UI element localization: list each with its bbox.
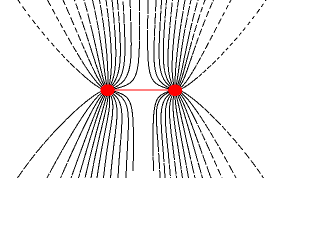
field line TL13 bbox=[18, 0, 104, 90]
field line BR12 bbox=[179, 92, 236, 179]
field line TL5 bbox=[110, 0, 116, 86]
field line BL4 bbox=[111, 93, 118, 178]
field line BR1 bbox=[153, 91, 171, 172]
field line TL11 bbox=[63, 0, 105, 88]
field line BR6 bbox=[173, 94, 183, 178]
field line BR9 bbox=[177, 94, 203, 179]
field line TL10 bbox=[75, 0, 106, 87]
field line BR11 bbox=[179, 93, 222, 179]
charge Q2 (right) bbox=[168, 85, 182, 96]
field line TL3 bbox=[111, 0, 125, 88]
field line BL11 bbox=[61, 92, 105, 178]
field line TR4 bbox=[163, 0, 172, 87]
field line BR3 bbox=[161, 92, 172, 178]
field line TR1 bbox=[148, 0, 171, 90]
field line BR7 bbox=[175, 94, 189, 178]
field line TR7 bbox=[175, 0, 185, 86]
field line BL2 bbox=[112, 91, 129, 178]
field line TR3 bbox=[159, 0, 171, 87]
charge Q1 (left) bbox=[101, 84, 115, 96]
field line TL4 bbox=[111, 0, 121, 87]
field line TR8 bbox=[176, 0, 191, 86]
field line BL8 bbox=[85, 94, 107, 178]
field line BR5 bbox=[170, 94, 177, 178]
field line BL10 bbox=[71, 93, 105, 178]
field line BL6 bbox=[97, 94, 110, 178]
field line BR2 bbox=[156, 91, 171, 178]
field line BR13 bbox=[179, 91, 264, 179]
field line TL12 bbox=[48, 0, 104, 88]
field line BR10 bbox=[178, 93, 211, 178]
field line TR13 bbox=[179, 0, 266, 90]
field line TL1 bbox=[112, 0, 140, 90]
field line TR11 bbox=[178, 0, 213, 88]
field line TL2 bbox=[112, 0, 132, 89]
field line TR9 bbox=[177, 0, 198, 87]
field line TR10 bbox=[178, 0, 205, 87]
field line TL6 bbox=[106, 0, 111, 86]
field line BL7 bbox=[91, 94, 108, 178]
field line TR5 bbox=[168, 0, 173, 87]
field line TL8 bbox=[93, 0, 108, 86]
field line BR8 bbox=[176, 94, 195, 178]
field line BL1 bbox=[112, 91, 133, 172]
field line BL13 bbox=[18, 91, 105, 179]
field line TL7 bbox=[100, 0, 109, 86]
field line BR4 bbox=[165, 93, 172, 178]
field line BL12 bbox=[47, 91, 104, 178]
field line BL3 bbox=[111, 92, 122, 178]
field line BL5 bbox=[104, 94, 113, 179]
field line BL9 bbox=[79, 94, 107, 179]
field line TR12 bbox=[179, 0, 231, 89]
field line TR6 bbox=[172, 0, 178, 86]
connector line between charges bbox=[108, 89, 175, 91]
field line TL9 bbox=[84, 0, 106, 87]
field line TR2 bbox=[154, 0, 171, 89]
